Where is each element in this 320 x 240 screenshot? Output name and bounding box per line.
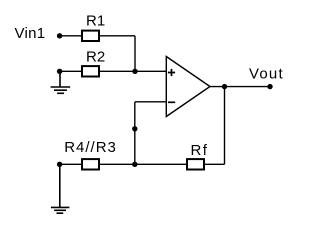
svg-text:R4//R3: R4//R3: [64, 139, 117, 156]
ground 2: [51, 164, 70, 213]
wire Vin1 to R1: [60, 35, 81, 37]
wire R4//R3 to Rf: [100, 163, 186, 165]
wire Rf right: [205, 163, 225, 165]
op-amp + input mark: [168, 69, 175, 76]
node on feedback wire: [132, 126, 137, 131]
resistor R2: [82, 66, 99, 76]
wire R1 down to junction: [134, 36, 136, 72]
resistor R4//R3: [82, 159, 99, 169]
svg-text:Rf: Rf: [191, 142, 209, 159]
junction node R1 R2: [132, 69, 137, 74]
op-amp - input mark: [168, 101, 175, 103]
wire op-amp output: [210, 86, 270, 88]
svg-text:Vin1: Vin1: [15, 25, 46, 42]
resistor R1: [82, 31, 99, 41]
ground 1: [51, 71, 71, 93]
resistor Rf: [187, 159, 204, 169]
wire R2 to op-amp + input: [100, 70, 166, 72]
terminal node Vout: [267, 84, 272, 89]
svg-text:Vout: Vout: [249, 65, 284, 82]
wire op-amp - input: [135, 101, 166, 103]
wire node to R4//R3: [60, 163, 81, 165]
node R2 ground: [57, 69, 62, 74]
svg-text:R2: R2: [86, 49, 105, 66]
wire R1 right: [100, 35, 135, 37]
wire feedback up to output: [224, 87, 226, 165]
junction node feedback bottom: [132, 162, 137, 167]
junction node output: [222, 84, 227, 89]
wire feedback vertical: [134, 102, 136, 165]
terminal node Vin1: [57, 33, 62, 38]
node R4//R3 ground: [57, 162, 62, 167]
wire node to R2: [60, 70, 81, 72]
op-amp U1: [166, 57, 210, 117]
svg-text:R1: R1: [86, 13, 105, 30]
